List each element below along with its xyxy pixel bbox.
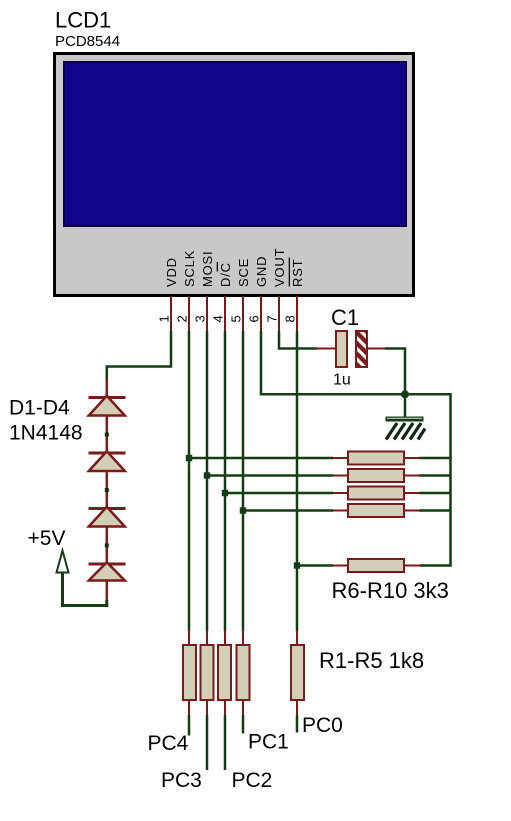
svg-text:D/C: D/C — [218, 262, 233, 287]
wire PC1 — [242, 715, 245, 734]
wire C1 right to GND node — [385, 349, 405, 394]
wire pin6 GND run — [261, 331, 451, 566]
svg-text:1N4148: 1N4148 — [9, 422, 83, 445]
resistor R1 (PC4 column) — [183, 630, 196, 716]
LCD U1 body — [55, 54, 414, 296]
resistor R9 — [333, 504, 420, 517]
junction pin4/R8 — [222, 490, 228, 496]
svg-text:2: 2 — [175, 315, 190, 322]
junction D1-D2 — [105, 433, 109, 437]
pin 6 stub — [260, 296, 262, 332]
wire PC2 — [224, 715, 227, 770]
diode D4 — [89, 527, 126, 602]
svg-text:PCD8544: PCD8544 — [55, 33, 120, 50]
wire R8 right — [419, 492, 451, 495]
svg-text:5: 5 — [229, 315, 244, 322]
junction D2-D3 — [105, 488, 109, 492]
wire row R7 — [207, 474, 333, 477]
junction pin8/R10 — [294, 562, 300, 568]
wire PC4 — [188, 715, 191, 736]
svg-text:7: 7 — [265, 315, 280, 322]
svg-text:RST: RST — [290, 259, 305, 287]
wire R7 right — [419, 474, 451, 477]
resistor R4 (PC1 column) — [237, 630, 250, 716]
junction pin3/R7 — [204, 472, 210, 478]
pin 3 stub — [206, 296, 208, 332]
resistor R5 (PC0 column) — [291, 630, 304, 716]
resistor R2 (PC3 column) — [201, 630, 214, 716]
svg-text:GND: GND — [254, 256, 269, 287]
resistor R7 — [333, 469, 420, 482]
resistor R6 — [333, 452, 420, 465]
wire row R6 — [189, 457, 333, 460]
svg-text:1: 1 — [157, 315, 172, 322]
power +5V arrow — [57, 551, 107, 606]
svg-text:R6-R10 3k3: R6-R10 3k3 — [332, 578, 449, 603]
pin 2 stub — [188, 296, 190, 332]
svg-text:+5V: +5V — [28, 527, 66, 550]
junction GND node — [401, 390, 409, 398]
pin label D/C — [217, 262, 233, 287]
pin label RST — [289, 258, 305, 288]
wire R6 right — [419, 457, 451, 460]
resistor R8 — [333, 487, 420, 500]
wire row R8 — [225, 492, 333, 495]
svg-text:SCE: SCE — [236, 258, 251, 287]
svg-text:PC0: PC0 — [302, 714, 343, 737]
junction D3-D4 — [105, 544, 109, 548]
svg-text:8: 8 — [283, 315, 298, 322]
svg-text:VDD: VDD — [164, 257, 179, 287]
wire pin5 column — [242, 331, 245, 631]
svg-text:3: 3 — [193, 315, 208, 322]
svg-text:SCLK: SCLK — [182, 250, 197, 287]
svg-text:4: 4 — [211, 315, 226, 322]
diode D3 — [89, 471, 126, 527]
resistor R3 (PC2 column) — [218, 630, 231, 716]
pin 5 stub — [242, 296, 244, 332]
svg-text:D1-D4: D1-D4 — [9, 397, 70, 420]
svg-text:PC4: PC4 — [148, 732, 189, 755]
junction pin5/R9 — [240, 507, 246, 513]
svg-text:1u: 1u — [333, 372, 351, 389]
svg-text:6: 6 — [247, 315, 262, 322]
svg-text:LCD1: LCD1 — [55, 8, 111, 33]
svg-text:VOUT: VOUT — [272, 248, 287, 287]
resistor R10 — [333, 559, 420, 572]
ground — [386, 394, 426, 439]
wire row R10 — [297, 564, 333, 567]
pin 1 stub — [170, 296, 172, 332]
diode D1 — [89, 379, 126, 416]
capacitor C1 — [316, 331, 386, 367]
svg-text:MOSI: MOSI — [200, 251, 215, 287]
wire pin2 column — [188, 331, 191, 631]
wire pin3 column — [206, 331, 209, 631]
wire PC0 — [296, 715, 299, 733]
wire R9 right — [419, 509, 451, 512]
junction pin2/R6 — [186, 455, 192, 461]
pin 7 stub — [278, 296, 280, 332]
wire pin4 column — [224, 331, 227, 631]
wire pin7 to C1 — [279, 331, 317, 349]
svg-text:PC3: PC3 — [161, 769, 202, 792]
svg-text:C1: C1 — [331, 305, 359, 330]
wire pin8 column — [296, 331, 299, 631]
svg-text:R1-R5 1k8: R1-R5 1k8 — [319, 648, 424, 673]
diode D2 — [89, 416, 126, 472]
wire pin1 to diode chain — [107, 331, 171, 380]
wire PC3 — [206, 715, 209, 770]
svg-text:PC1: PC1 — [248, 731, 289, 754]
svg-text:PC2: PC2 — [232, 769, 273, 792]
wire row R9 — [243, 509, 333, 512]
LCD screen — [64, 62, 406, 226]
pin 8 stub — [296, 296, 298, 332]
pin 4 stub — [224, 296, 226, 332]
